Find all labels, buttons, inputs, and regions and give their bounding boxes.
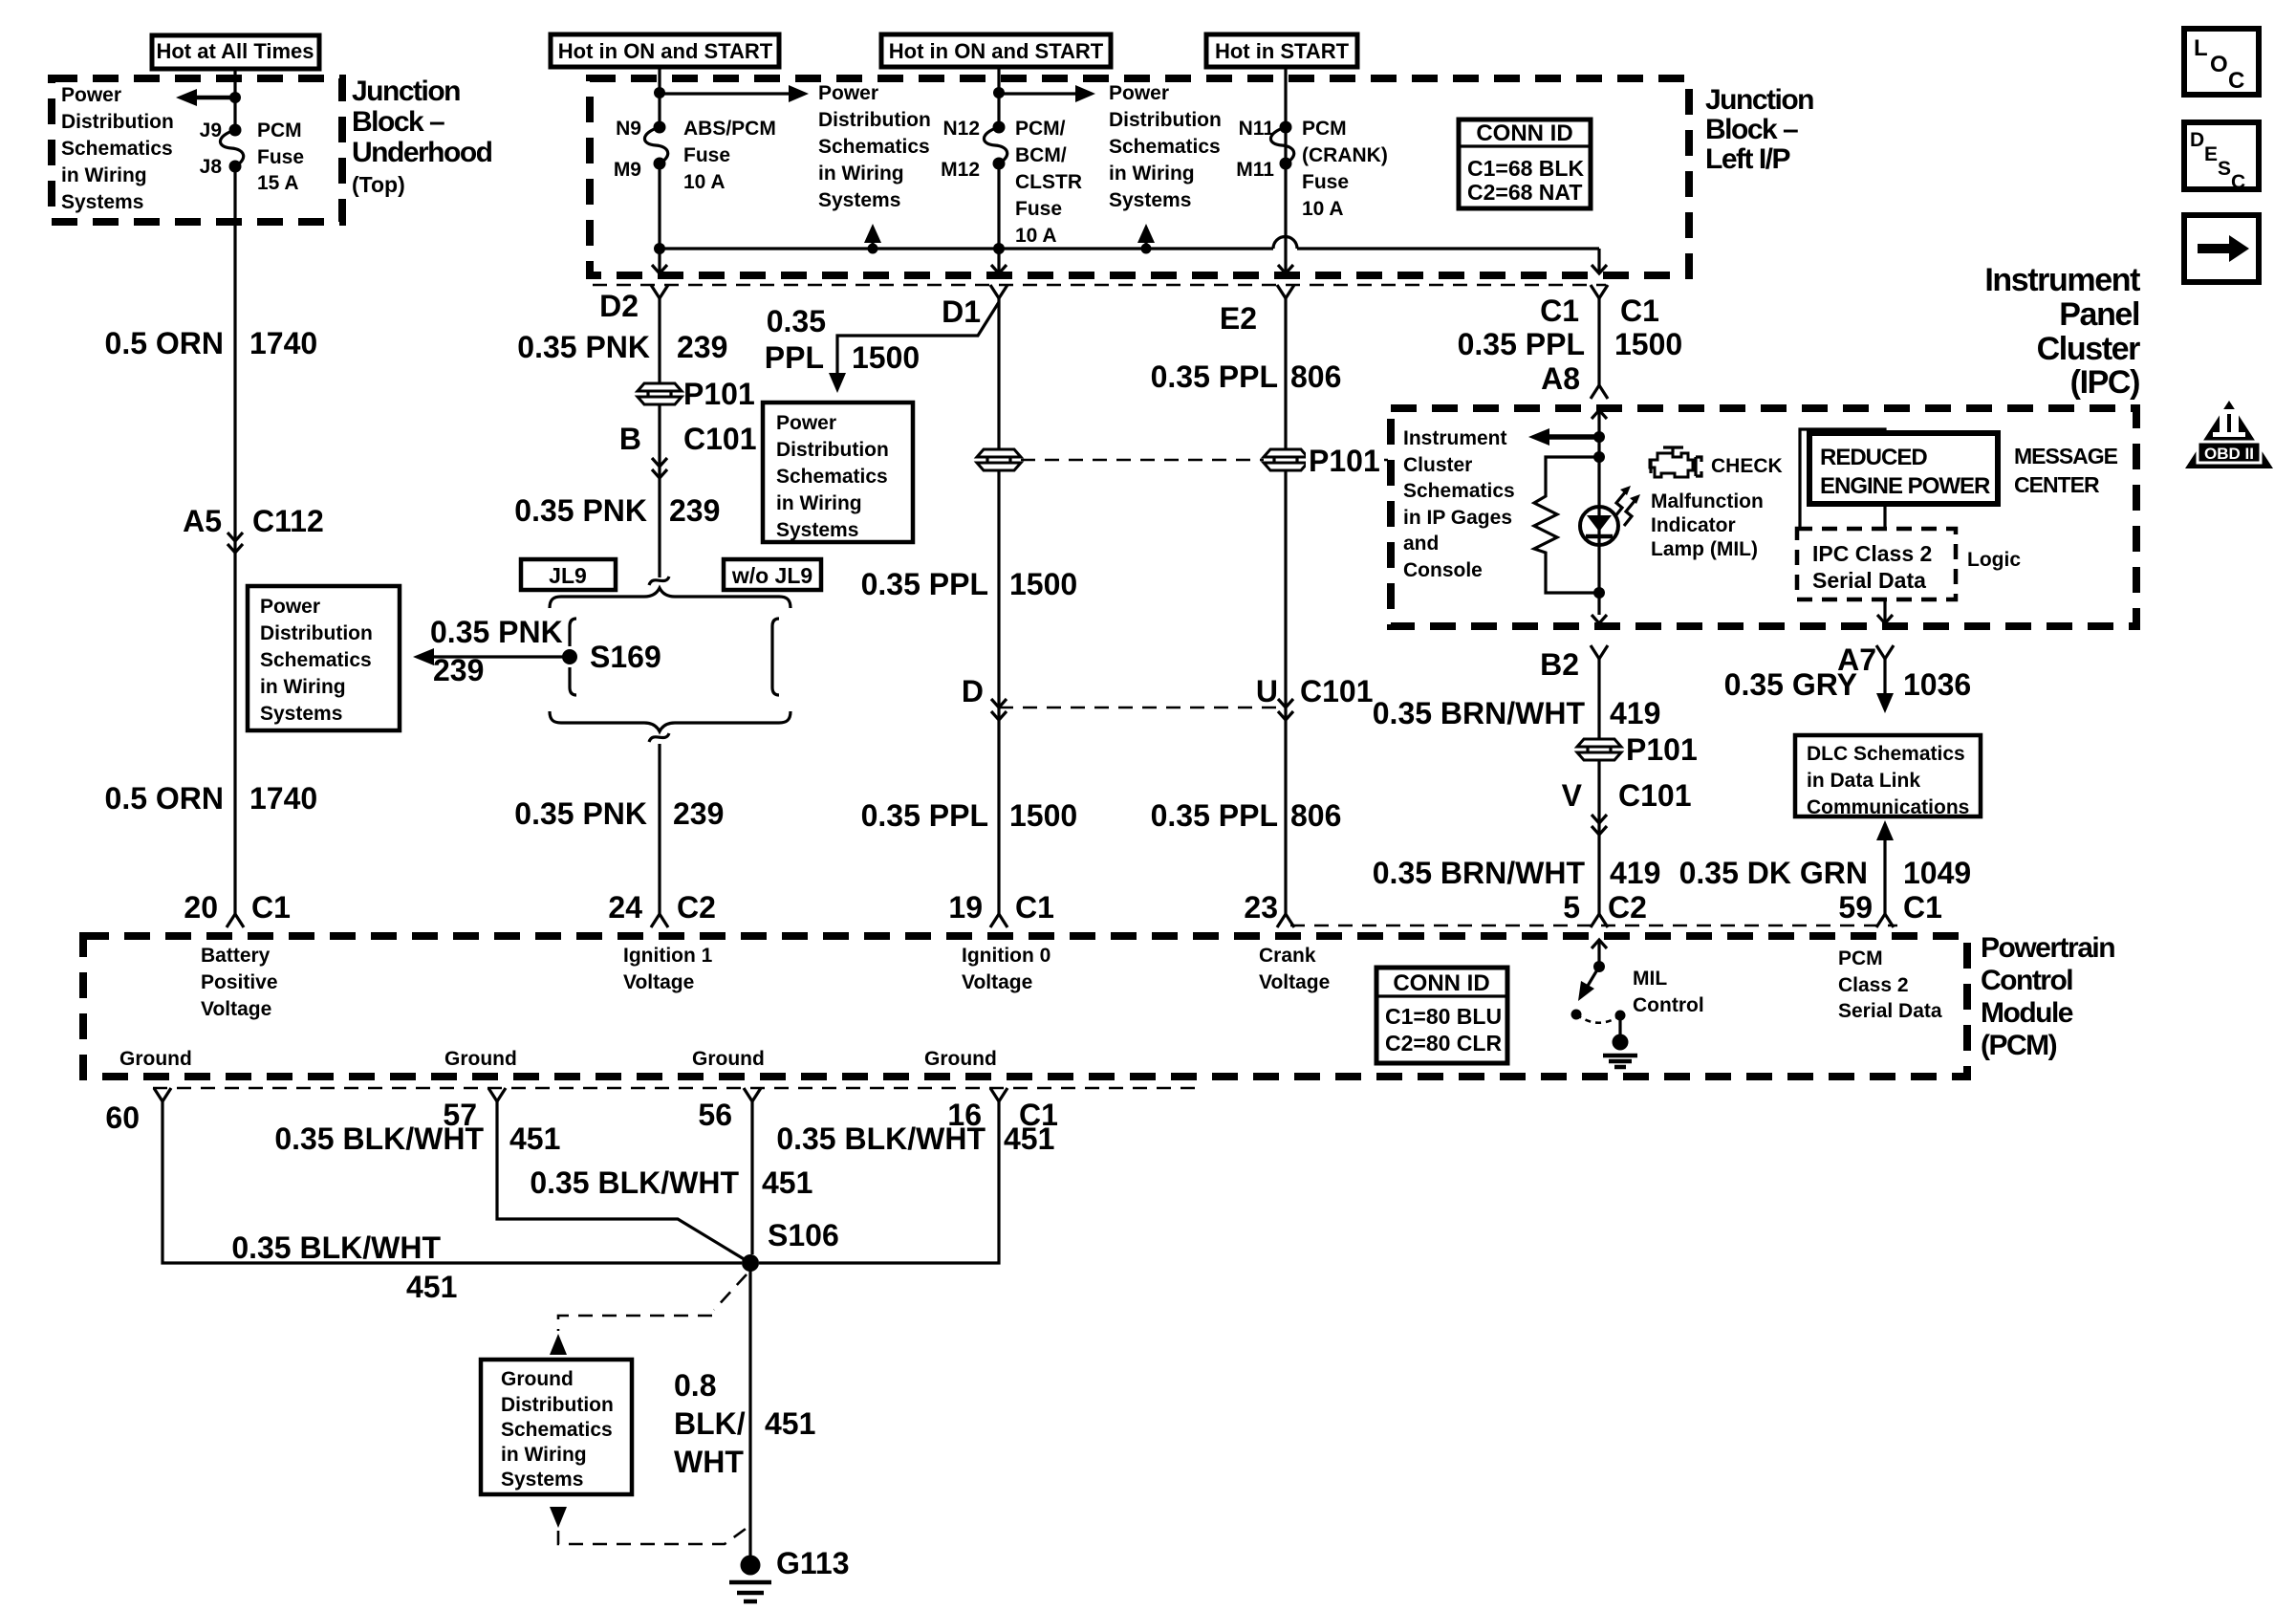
pin 16 fork connector C1 <box>947 1088 1058 1132</box>
svg-text:Distribution: Distribution <box>818 109 931 131</box>
exit chevron IPC bottom <box>1592 615 1607 623</box>
svg-text:D: D <box>2190 129 2204 151</box>
svg-text:JL9: JL9 <box>549 563 587 588</box>
svg-text:Voltage: Voltage <box>623 971 694 993</box>
wire arrow up to Systems text A <box>864 224 881 249</box>
svg-text:V: V <box>1562 778 1583 813</box>
svg-text:Distribution: Distribution <box>61 111 174 133</box>
wire ground 56 <box>750 1101 753 1254</box>
svg-text:Console: Console <box>1403 559 1483 581</box>
svg-text:15 A: 15 A <box>257 172 299 194</box>
wire PCM pin 59 to DLC note <box>1876 820 1894 914</box>
svg-text:in Wiring: in Wiring <box>501 1444 587 1466</box>
svg-text:Battery: Battery <box>201 945 271 967</box>
node switch top <box>1593 961 1605 972</box>
wire class2 to IPC bottom <box>1883 599 1886 623</box>
svg-text:60: 60 <box>105 1100 140 1135</box>
text power distribution schematics (block A) <box>818 82 931 211</box>
svg-text:C1: C1 <box>1540 294 1579 328</box>
icon box arrow <box>2184 215 2259 282</box>
svg-text:WHT: WHT <box>674 1445 744 1479</box>
svg-text:0.35 PNK: 0.35 PNK <box>514 796 647 831</box>
svg-text:19: 19 <box>948 890 983 925</box>
svg-text:239: 239 <box>669 493 720 528</box>
entry chevron IPC <box>1592 410 1607 419</box>
wire to PCM pin 24 <box>658 744 661 914</box>
svg-text:D2: D2 <box>599 289 639 323</box>
svg-text:0.35 BLK/WHT: 0.35 BLK/WHT <box>274 1121 484 1156</box>
label box Hot in ON and START (1) <box>551 34 779 67</box>
svg-text:P101: P101 <box>683 377 755 411</box>
svg-text:N11: N11 <box>1239 118 1275 140</box>
svg-text:PCM/: PCM/ <box>1015 118 1066 140</box>
svg-text:Voltage: Voltage <box>201 998 271 1020</box>
fuse PCM (CRANK) Fuse 10 A <box>1270 121 1293 170</box>
node branch to schematics arrow B <box>993 87 1005 98</box>
wire E2 to P101 <box>1284 298 1287 448</box>
svg-text:451: 451 <box>406 1270 457 1304</box>
svg-text:M12: M12 <box>941 159 980 181</box>
svg-text:Fuse: Fuse <box>1015 198 1062 220</box>
wire PCM/BCM/CLSTR fuse feed <box>997 67 1000 127</box>
wire arrow right to power distribution (2) <box>999 85 1095 102</box>
wire B2 to P101 <box>1597 659 1600 738</box>
wire label 0.35 PPL 1500 (branch) <box>765 304 920 375</box>
svg-text:Schematics: Schematics <box>260 649 372 671</box>
svg-text:5: 5 <box>1563 890 1580 925</box>
svg-text:Power: Power <box>260 596 320 618</box>
svg-text:Fuse: Fuse <box>683 144 730 166</box>
ground internal PCM <box>1603 1034 1637 1068</box>
svg-text:CENTER: CENTER <box>2014 472 2100 497</box>
option branch JL9 with splice S169 <box>562 619 661 695</box>
svg-text:806: 806 <box>1290 359 1341 394</box>
svg-text:C1=68 BLK: C1=68 BLK <box>1467 156 1584 181</box>
wire label 0.35 DK GRN 1049 <box>1679 856 1972 890</box>
svg-text:0.35 PNK: 0.35 PNK <box>430 615 563 649</box>
powertrain control module dashed box <box>83 936 1967 1077</box>
svg-text:0.35 PPL: 0.35 PPL <box>1458 327 1585 361</box>
svg-text:56: 56 <box>698 1098 732 1132</box>
fuse PCM Fuse 15 A <box>220 124 243 173</box>
svg-text:Malfunction: Malfunction <box>1651 490 1764 512</box>
conn id table junction block <box>1459 120 1591 208</box>
info box ground distribution schematics <box>481 1360 632 1494</box>
connector fork C1 C1 <box>1540 285 1659 328</box>
svg-text:0.35 DK GRN: 0.35 DK GRN <box>1679 856 1868 890</box>
dashed reference link note to G113 wire <box>558 1529 746 1544</box>
switch blade MIL control <box>1578 967 1599 1001</box>
svg-text:451: 451 <box>509 1121 560 1156</box>
svg-text:Power: Power <box>1109 82 1169 104</box>
svg-text:0.5 ORN: 0.5 ORN <box>105 781 224 816</box>
pin 57 fork <box>443 1088 506 1132</box>
node junction at arrow branch <box>229 92 241 103</box>
dashed connector tie line P101 <box>1021 459 1388 462</box>
connector row dashed line above PCM right <box>1290 925 1897 927</box>
wire logic bracket <box>1800 429 1885 529</box>
node rail arrow B <box>1141 244 1152 254</box>
svg-text:0.5 ORN: 0.5 ORN <box>105 326 224 360</box>
svg-text:PCM: PCM <box>1838 947 1883 969</box>
pin 23 <box>1244 890 1294 927</box>
wire battery feed top <box>233 69 236 130</box>
svg-text:in Wiring: in Wiring <box>818 163 904 185</box>
svg-text:(PCM): (PCM) <box>1981 1030 2057 1061</box>
svg-text:239: 239 <box>673 796 724 831</box>
svg-text:Powertrain: Powertrain <box>1981 932 2114 964</box>
node resistor bottom <box>1593 587 1605 599</box>
svg-text:MIL: MIL <box>1633 968 1667 990</box>
svg-text:10 A: 10 A <box>1015 225 1057 247</box>
connector P101 col3 <box>977 449 1021 470</box>
svg-text:0.35 PNK: 0.35 PNK <box>517 330 650 364</box>
svg-text:Schematics: Schematics <box>1109 136 1221 158</box>
svg-text:Systems: Systems <box>260 703 342 725</box>
pin label Ignition 0 Voltage <box>962 945 1051 993</box>
wire MIL lamp internal <box>1597 410 1600 615</box>
svg-text:0.35 BLK/WHT: 0.35 BLK/WHT <box>231 1230 441 1265</box>
wire D2 to P101 <box>658 298 661 382</box>
exit chevron col5 <box>1592 265 1607 273</box>
svg-text:P101: P101 <box>1626 732 1698 767</box>
svg-text:REDUCED: REDUCED <box>1820 445 1927 470</box>
connector fork D1 <box>942 285 1007 329</box>
wire fuse to bottom rail <box>658 163 661 273</box>
option tag w/o JL9 <box>724 559 821 590</box>
svg-text:Schematics: Schematics <box>501 1419 613 1441</box>
node branch to schematics arrow <box>654 87 665 98</box>
wire label 0.35 PNK 239 (S169 branch) <box>430 615 563 687</box>
label MESSAGE CENTER <box>2014 444 2118 497</box>
svg-text:C2=68 NAT: C2=68 NAT <box>1467 180 1582 205</box>
value label ABS/PCM Fuse 10 A <box>683 118 776 193</box>
svg-text:Lamp (MIL): Lamp (MIL) <box>1651 538 1758 560</box>
svg-text:Underhood: Underhood <box>352 137 492 168</box>
pin 19 connector C1 <box>948 890 1054 927</box>
svg-text:Control: Control <box>1633 994 1704 1016</box>
svg-text:C2: C2 <box>677 890 716 925</box>
svg-text:PPL: PPL <box>765 340 824 375</box>
svg-text:239: 239 <box>433 653 484 687</box>
junction block underhood dashed box <box>52 78 342 222</box>
svg-text:59: 59 <box>1838 890 1873 925</box>
wire label 0.35 PPL 1500 (A8 feed) <box>1458 327 1683 361</box>
svg-text:451: 451 <box>1004 1121 1054 1156</box>
wire arrow right to power distribution (1) <box>660 85 809 102</box>
svg-text:Distribution: Distribution <box>1109 109 1222 131</box>
svg-text:OBD II: OBD II <box>2204 445 2254 463</box>
svg-text:Panel: Panel <box>2059 296 2139 333</box>
svg-text:M11: M11 <box>1236 159 1274 181</box>
wire label 0.35 GRY 1036 <box>1724 667 1972 702</box>
pin 20 connector C1 <box>184 890 291 927</box>
svg-text:Ignition 1: Ignition 1 <box>623 945 713 967</box>
exit chevron col4 <box>1278 265 1293 273</box>
wire P101 to PCM pin 5 <box>1597 761 1600 914</box>
node rail at col3 <box>993 243 1005 254</box>
svg-text:Control: Control <box>1981 965 2072 996</box>
title Powertrain Control Module (PCM) <box>1981 932 2114 1061</box>
value label PCM (CRANK) Fuse 10 A <box>1302 118 1388 220</box>
svg-text:1740: 1740 <box>249 781 317 816</box>
ground G113 <box>729 1546 850 1601</box>
option brace upper <box>550 588 791 608</box>
svg-text:C101: C101 <box>683 422 757 456</box>
svg-text:806: 806 <box>1290 798 1341 833</box>
wire label 0.5 ORN 1740 lower <box>105 781 318 816</box>
title Junction Block - Left I/P <box>1705 84 1813 175</box>
text power distribution schematics (block B) <box>1109 82 1222 211</box>
value label PCM Fuse 15 A <box>257 120 304 194</box>
svg-text:Class 2: Class 2 <box>1838 974 1909 996</box>
svg-text:C1: C1 <box>1903 890 1942 925</box>
svg-text:S: S <box>2218 158 2231 180</box>
connector fork E2 <box>1220 285 1294 336</box>
wire 1740 battery feed <box>233 166 236 914</box>
svg-text:20: 20 <box>184 890 218 925</box>
svg-text:IPC Class 2: IPC Class 2 <box>1812 541 1932 566</box>
label MIL Control <box>1633 968 1704 1016</box>
connector row dashed line below PCM <box>153 1087 1204 1090</box>
wire label 0.35 BRN/WHT 419 (lower) <box>1373 856 1661 890</box>
svg-text:451: 451 <box>765 1406 815 1441</box>
svg-text:J8: J8 <box>200 156 223 178</box>
svg-text:C101: C101 <box>1618 778 1692 813</box>
connector fork D2 <box>599 285 668 323</box>
svg-text:and: and <box>1403 533 1439 555</box>
connector fork A7 <box>1837 642 1894 677</box>
wire break squiggle bottom <box>649 733 669 742</box>
svg-text:Ground: Ground <box>444 1048 517 1070</box>
node IPC arrow branch <box>1593 431 1605 443</box>
lamp MIL LED <box>1580 507 1618 545</box>
svg-text:C112: C112 <box>252 504 324 538</box>
svg-text:Serial Data: Serial Data <box>1812 568 1926 593</box>
svg-text:1740: 1740 <box>249 326 317 360</box>
svg-text:0.35 BRN/WHT: 0.35 BRN/WHT <box>1373 696 1586 730</box>
svg-text:in Wiring: in Wiring <box>260 676 346 698</box>
wire arrow left from S169 <box>413 648 564 665</box>
option branch w/o JL9 <box>772 619 779 695</box>
svg-text:J9: J9 <box>200 120 222 142</box>
wire arrow up to Systems text B <box>1137 224 1155 249</box>
switch throw dashed arc <box>1576 1014 1620 1023</box>
node resistor top <box>1593 451 1605 463</box>
connector C101 pin B <box>619 422 757 478</box>
svg-text:A8: A8 <box>1541 361 1580 396</box>
wire label 0.35 BLK/WHT 451 (60) <box>231 1230 457 1304</box>
wire label 0.8 BLK/WHT 451 <box>674 1368 815 1479</box>
svg-text:C1: C1 <box>1620 294 1659 328</box>
svg-text:Systems: Systems <box>776 519 858 541</box>
svg-text:C2: C2 <box>1608 890 1647 925</box>
svg-text:Hot at All Times: Hot at All Times <box>156 39 314 63</box>
svg-text:Hot in ON and START: Hot in ON and START <box>889 39 1104 63</box>
svg-text:Ground: Ground <box>119 1048 192 1070</box>
svg-text:Left I/P: Left I/P <box>1705 143 1789 175</box>
wire break squiggle top <box>649 577 669 585</box>
svg-text:0.35 PPL: 0.35 PPL <box>1151 798 1278 833</box>
svg-text:Distribution: Distribution <box>501 1394 614 1416</box>
splice S106 <box>742 1218 839 1272</box>
info box DLC schematics <box>1795 735 1981 818</box>
svg-text:0.35 BLK/WHT: 0.35 BLK/WHT <box>530 1165 739 1200</box>
wire reduced box to class2 <box>1883 504 1886 529</box>
svg-text:Schematics: Schematics <box>818 136 930 158</box>
svg-text:CLSTR: CLSTR <box>1015 171 1082 193</box>
label box Hot at All Times <box>152 35 319 69</box>
svg-text:1500: 1500 <box>1009 567 1077 601</box>
svg-text:1500: 1500 <box>852 340 920 375</box>
svg-text:Block –: Block – <box>1705 114 1798 145</box>
wire label 0.5 ORN 1740 <box>105 326 318 360</box>
svg-text:BCM/: BCM/ <box>1015 144 1067 166</box>
svg-text:B: B <box>619 422 641 456</box>
wire label 0.35 PPL 806 <box>1151 359 1342 394</box>
svg-text:E: E <box>2204 143 2218 165</box>
junction block left I/P dashed box <box>590 78 1689 275</box>
wire arrow left to cluster schematics <box>1528 428 1599 446</box>
node rail at col2 <box>654 243 665 254</box>
svg-text:419: 419 <box>1610 696 1660 730</box>
svg-text:Distribution: Distribution <box>260 622 373 644</box>
connector P101 col5 <box>1577 732 1698 767</box>
svg-text:(Top): (Top) <box>352 172 405 197</box>
svg-text:Ground: Ground <box>501 1368 574 1390</box>
svg-text:Instrument: Instrument <box>1984 262 2140 298</box>
svg-text:23: 23 <box>1244 890 1278 925</box>
svg-text:451: 451 <box>762 1165 812 1200</box>
wire ABS/PCM fuse feed <box>658 67 661 127</box>
svg-text:CONN ID: CONN ID <box>1393 970 1489 996</box>
svg-text:0.35 PPL: 0.35 PPL <box>861 798 988 833</box>
node rail arrow A <box>868 244 878 254</box>
wire D1 to P101 <box>997 298 1000 448</box>
IPC class 2 serial data dashed box <box>1797 529 1956 599</box>
connector fork B2 <box>1540 645 1608 682</box>
svg-text:0.35 PNK: 0.35 PNK <box>514 493 647 528</box>
svg-text:Ignition 0: Ignition 0 <box>962 945 1051 967</box>
svg-text:Systems: Systems <box>61 191 143 213</box>
svg-text:in Wiring: in Wiring <box>61 164 147 186</box>
fuse PCM/BCM/CLSTR Fuse 10 A <box>984 121 1007 170</box>
svg-text:B2: B2 <box>1540 647 1579 682</box>
svg-text:Instrument: Instrument <box>1403 427 1507 449</box>
wire P101 to PCM pin 19 <box>997 471 1000 914</box>
wire A7 to DLC note <box>1876 659 1894 713</box>
connector C112 pin A5 <box>183 504 324 553</box>
resistor shunt <box>1534 457 1599 593</box>
pin 60 fork <box>105 1088 171 1135</box>
arrow up to ground distribution note <box>550 1334 567 1355</box>
svg-text:Voltage: Voltage <box>962 971 1032 993</box>
svg-text:A5: A5 <box>183 504 222 538</box>
svg-text:PCM: PCM <box>1302 118 1347 140</box>
svg-text:MESSAGE: MESSAGE <box>2014 444 2118 468</box>
pin label Battery Positive Voltage <box>201 945 278 1020</box>
svg-text:Communications: Communications <box>1807 796 1969 818</box>
svg-text:1500: 1500 <box>1009 798 1077 833</box>
pin label Crank Voltage <box>1259 945 1330 993</box>
node switch left contact <box>1571 1010 1582 1020</box>
wire S106 to G113 <box>748 1263 751 1557</box>
title Junction Block - Underhood (Top) <box>352 76 492 197</box>
wire branch to power distribution note <box>837 302 999 373</box>
svg-text:Cluster: Cluster <box>2037 331 2141 367</box>
connector P101 col4 <box>1264 444 1384 478</box>
svg-text:in Wiring: in Wiring <box>776 492 862 514</box>
svg-text:Systems: Systems <box>501 1469 583 1491</box>
svg-text:D: D <box>962 674 984 708</box>
text instrument cluster schematics in IP gages and console <box>1403 427 1515 581</box>
arrow down from ground distribution note <box>550 1507 567 1528</box>
svg-text:P101: P101 <box>1309 444 1380 478</box>
wire label 0.35 PNK 239 (2) <box>514 493 720 528</box>
info box power distribution schematics (center) <box>763 403 913 542</box>
svg-text:BLK/: BLK/ <box>674 1406 746 1441</box>
wire P101 to PCM pin 23 <box>1284 471 1287 914</box>
info box power distribution schematics (mid left) <box>248 586 400 730</box>
fuse ABS/PCM Fuse 10 A <box>644 121 667 170</box>
svg-text:Schematics: Schematics <box>776 466 888 488</box>
svg-text:Junction: Junction <box>352 76 460 107</box>
wire label 0.35 PPL 1500 (mid) <box>861 567 1078 601</box>
svg-text:Power: Power <box>776 412 836 434</box>
svg-text:Positive: Positive <box>201 971 278 993</box>
svg-text:C2=80 CLR: C2=80 CLR <box>1385 1031 1502 1056</box>
connector C101 pin D <box>962 674 1007 720</box>
svg-text:Power: Power <box>61 84 121 106</box>
icon OBD II triangle <box>2185 401 2273 468</box>
svg-text:24: 24 <box>608 890 642 925</box>
svg-text:Schematics: Schematics <box>1403 480 1515 502</box>
wire ground 60 <box>162 1101 742 1263</box>
pin 59 connector C1 <box>1838 890 1942 927</box>
svg-text:ENGINE POWER: ENGINE POWER <box>1820 473 1990 499</box>
svg-text:1049: 1049 <box>1903 856 1971 890</box>
icon box LOC <box>2184 29 2259 95</box>
LED emission arrows <box>1614 486 1640 526</box>
wire bottom rail with hop over crank wire <box>660 236 1599 273</box>
wire ground 57 <box>497 1101 750 1263</box>
svg-text:Fuse: Fuse <box>1302 171 1349 193</box>
pin 24 connector C2 <box>608 890 716 927</box>
svg-text:Indicator: Indicator <box>1651 514 1736 536</box>
svg-text:C1=80 BLU: C1=80 BLU <box>1385 1004 1502 1029</box>
wire arrow to power distribution schematics <box>176 89 235 106</box>
svg-text:0.35 BLK/WHT: 0.35 BLK/WHT <box>776 1121 986 1156</box>
svg-text:Power: Power <box>818 82 878 104</box>
icon box DESC <box>2184 122 2259 193</box>
pin 56 fork <box>698 1088 761 1132</box>
instrument panel cluster dashed box <box>1391 408 2136 626</box>
svg-text:S106: S106 <box>768 1218 839 1252</box>
title Instrument Panel Cluster (IPC) <box>1984 262 2140 401</box>
svg-text:0.35 PPL: 0.35 PPL <box>1151 359 1278 394</box>
svg-text:G113: G113 <box>776 1546 850 1580</box>
label Malfunction Indicator Lamp (MIL) <box>1651 490 1764 560</box>
svg-text:O: O <box>2210 52 2228 77</box>
svg-text:419: 419 <box>1610 856 1660 890</box>
engine icon CHECK <box>1650 447 1701 477</box>
svg-text:(IPC): (IPC) <box>2070 364 2139 401</box>
svg-text:D1: D1 <box>942 294 981 329</box>
svg-text:Hot in START: Hot in START <box>1215 39 1350 63</box>
wire C1 to IPC pin A8 <box>1597 298 1600 385</box>
dashed reference link S106 to ground distribution <box>558 1274 747 1331</box>
exit chevron col3 <box>991 265 1007 273</box>
